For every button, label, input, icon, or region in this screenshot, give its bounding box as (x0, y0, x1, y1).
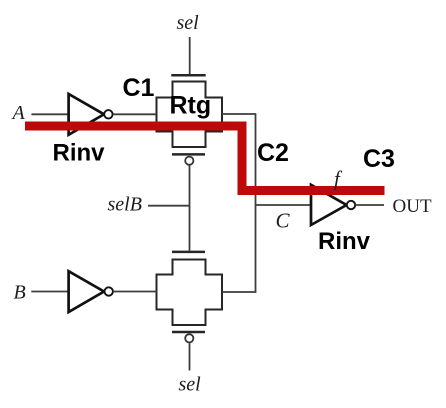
svg-text:Rtg: Rtg (170, 92, 212, 120)
red highlighted path A to OUT (25, 126, 385, 191)
svg-text:A: A (11, 102, 26, 124)
TG2 top gate plate (172, 251, 205, 254)
svg-text:Rinv: Rinv (318, 228, 371, 255)
wire B inverter to TG2 (113, 291, 156, 293)
inverter A output bubble (104, 110, 112, 118)
wire A to inverter (31, 113, 69, 115)
wire node C to output inverter (256, 204, 312, 206)
inverter (B input) triangle (69, 271, 104, 312)
transmission gate TG2 cross outline (157, 260, 223, 326)
TG2 PMOS gate bubble (185, 334, 193, 342)
svg-text:B: B (14, 282, 26, 304)
wire B to inverter (31, 291, 69, 293)
wire sel to TG1 gate (189, 37, 191, 74)
TG1 top gate plate (171, 74, 205, 77)
wire selB (148, 205, 190, 207)
svg-text:C1: C1 (123, 74, 155, 102)
svg-text:Rinv: Rinv (53, 140, 106, 167)
transmission gate Rtg cross outline (157, 82, 223, 148)
wire TG1 right arm (222, 113, 256, 115)
svg-text:OUT: OUT (393, 196, 432, 217)
TG2 bottom gate plate (172, 331, 205, 334)
wire bubble to OUT (355, 204, 384, 206)
inverter Rinv (A input) triangle (69, 94, 104, 135)
svg-text:sel: sel (179, 374, 202, 396)
svg-text:selB: selB (108, 194, 142, 216)
svg-text:C2: C2 (257, 139, 289, 167)
wire vertical to node C (255, 113, 257, 292)
TG1 bottom gate plate (172, 153, 205, 156)
wire TG2 right arm (222, 291, 256, 293)
inverter output bubble (347, 201, 355, 209)
svg-text:C: C (276, 209, 291, 233)
wire TG2 bubble down (189, 343, 191, 371)
wire TG1 bubble down to selB node and TG2 gate (189, 165, 191, 251)
wire A inverter to TG1 (113, 113, 157, 115)
inverter Rinv (output) triangle (311, 185, 347, 225)
TG1 PMOS gate bubble (185, 157, 193, 165)
svg-text:sel: sel (177, 12, 200, 34)
svg-text:C3: C3 (363, 145, 395, 173)
inverter B output bubble (105, 287, 113, 295)
